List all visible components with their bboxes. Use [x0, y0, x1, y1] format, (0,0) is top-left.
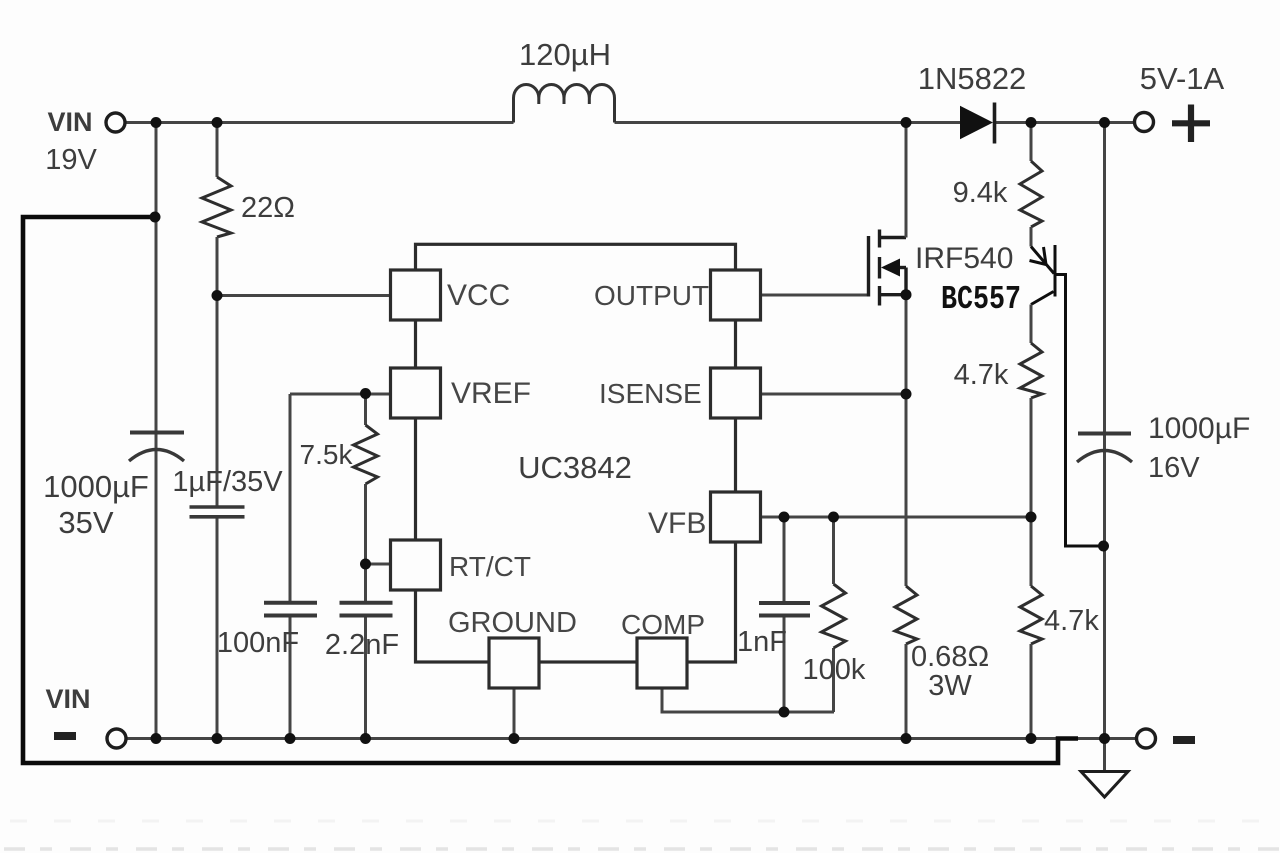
ground symbol: [1103, 739, 1106, 772]
junction diode cathode / 9.4k: [1026, 117, 1037, 128]
wire left vertical input rail x=156: [155, 123, 158, 739]
inductor L1 120uH: [514, 84, 615, 122]
svg-text:4.7k: 4.7k: [1044, 605, 1099, 637]
resistor R5 9.4k: [1020, 161, 1042, 227]
wire VFB node down to lower 4.7k: [1030, 517, 1033, 586]
capacitor C1 1000uF 35V: [129, 433, 184, 462]
svg-text:ISENSE: ISENSE: [599, 378, 702, 409]
wire x=217 from top rail to 22ohm: [216, 123, 219, 178]
svg-text:7.5k: 7.5k: [300, 439, 354, 470]
wire bottom rail: [126, 737, 1105, 740]
bottom scan dashes: [10, 820, 1280, 823]
svg-text:19V: 19V: [45, 144, 97, 176]
svg-text:1000µF: 1000µF: [43, 469, 149, 504]
capacitor C4 2.2nF: [340, 603, 393, 616]
svg-text:1000µF: 1000µF: [1148, 412, 1250, 445]
plus symbol output: [1172, 105, 1210, 143]
junction 22ohm / top wire: [212, 117, 223, 128]
junction MOSFET source: [901, 289, 912, 300]
wire VFB pin right to divider node: [761, 516, 1031, 519]
capacitor C3 100nF: [264, 603, 317, 616]
wire top rail from VIN+ terminal to inductor: [125, 121, 514, 124]
junction VFB / 100k: [828, 512, 839, 523]
junction RT/CT node: [360, 559, 371, 570]
wire COMP pin down and right to 1nF/100k: [662, 688, 834, 712]
pin VCC box: [391, 270, 441, 320]
svg-text:16V: 16V: [1148, 452, 1200, 484]
pin COMP box: [637, 638, 687, 688]
junction MOSFET drain / diode anode: [901, 117, 912, 128]
svg-text:BC557: BC557: [941, 281, 1021, 318]
svg-text:OUTPUT: OUTPUT: [594, 280, 709, 311]
svg-text:9.4k: 9.4k: [953, 177, 1008, 209]
capacitor C6 1000uF 16V: [1077, 434, 1132, 463]
wire MOSFET drain to top rail: [905, 123, 908, 238]
svg-text:RT/CT: RT/CT: [449, 551, 531, 582]
transistor Q2 BC557: [1030, 245, 1056, 305]
wire BC557 base lead to output minus rail: [1057, 275, 1104, 547]
svg-text:VCC: VCC: [447, 279, 510, 312]
pin VFB box: [711, 492, 761, 542]
junction VCC node: [212, 290, 223, 301]
wire ISENSE pin to MOSFET source node: [761, 393, 906, 396]
junction bottom rail / input cap: [151, 733, 162, 744]
pin ISENSE box: [711, 368, 761, 418]
svg-text:VIN: VIN: [45, 684, 90, 714]
wire output + rail x=1104.5: [1103, 123, 1106, 739]
pin VREF box: [391, 368, 441, 418]
junction ISENSE node: [901, 389, 912, 400]
svg-text:1nF: 1nF: [737, 626, 787, 658]
capacitor C5 1nF: [783, 517, 786, 602]
junction thick border / input rail: [150, 212, 161, 223]
terminal VIN +: [106, 113, 125, 132]
svg-text:GROUND: GROUND: [448, 607, 577, 639]
junction VFB / 4.7k divider: [1026, 512, 1037, 523]
junction bottom rail / 100nF: [285, 733, 296, 744]
junction bottom rail / 1uF: [212, 733, 223, 744]
svg-text:100nF: 100nF: [217, 627, 299, 659]
svg-text:1µF/35V: 1µF/35V: [172, 466, 283, 498]
wire 9.4k top connection: [1030, 123, 1033, 162]
wire top rail from inductor to diode anode: [615, 121, 961, 124]
junction COMP / 1nF: [779, 707, 790, 718]
svg-text:4.7k: 4.7k: [954, 359, 1009, 391]
svg-text:35V: 35V: [58, 505, 113, 540]
wire collector down to 4.7k: [1030, 305, 1033, 344]
terminal output -: [1137, 729, 1156, 748]
resistor R3 100k: [822, 584, 846, 648]
resistor R1 22ohm: [202, 177, 231, 237]
junction bottom rail / GROUND pin: [509, 733, 520, 744]
junction VREF / 7.5k: [360, 388, 371, 399]
wire VREF pin left to 100nF branch: [290, 393, 391, 396]
pin OUTPUT box: [711, 270, 761, 320]
junction bottom rail / 0.68ohm: [901, 733, 912, 744]
resistor R4 0.68ohm 3W: [895, 586, 917, 644]
svg-text:5V-1A: 5V-1A: [1140, 61, 1225, 96]
minus symbol bottom left: [54, 732, 76, 740]
capacitor C2 1uF/35V: [190, 507, 245, 517]
junction BC557 base lead / output rail: [1098, 541, 1109, 552]
svg-text:100k: 100k: [803, 654, 866, 686]
wire MOSFET source down through ISENSE node to 0.68 ohm: [905, 295, 908, 586]
wire RT/CT pin to 7.5k/2.2nF node: [366, 563, 391, 566]
minus symbol bottom right: [1173, 736, 1195, 744]
pin RT/CT box: [391, 540, 441, 590]
junction input rail / top wire: [151, 117, 162, 128]
svg-text:VIN: VIN: [47, 107, 92, 137]
wire 100k bottom leg: [832, 648, 835, 712]
svg-text:1N5822: 1N5822: [918, 61, 1027, 96]
terminal output +: [1135, 113, 1154, 132]
wire 22ohm to VCC node and down to 1uF cap: [216, 237, 219, 506]
junction bottom rail / 2.2nF: [360, 733, 371, 744]
diode D1 1N5822: [960, 106, 993, 139]
pin GROUND box: [489, 638, 539, 688]
wire OUTPUT pin to MOSFET gate: [761, 294, 867, 297]
resistor R6 4.7k upper: [1020, 343, 1042, 398]
svg-text:0.68Ω: 0.68Ω: [911, 641, 989, 673]
svg-text:UC3842: UC3842: [518, 450, 632, 485]
svg-text:22Ω: 22Ω: [241, 192, 295, 224]
svg-text:IRF540: IRF540: [915, 242, 1013, 275]
svg-text:3W: 3W: [928, 670, 972, 702]
IC U1 UC3842 body: [416, 244, 736, 662]
wire x=290 down to 100nF: [289, 394, 292, 601]
svg-text:120µH: 120µH: [519, 37, 611, 72]
terminal VIN -: [107, 729, 126, 748]
wire top rail from diode cathode to output + terminal: [996, 121, 1135, 124]
svg-text:COMP: COMP: [621, 609, 705, 640]
junction bottom rail / 4.7k: [1026, 733, 1037, 744]
transistor Q1 IRF540 MOSFET: [869, 230, 907, 306]
svg-text:VFB: VFB: [648, 507, 706, 540]
resistor R7 4.7k lower: [1020, 586, 1042, 644]
junction bottom rail / output -: [1099, 733, 1110, 744]
thick annotation border: [23, 217, 1078, 763]
wire VCC pin to 22ohm node: [217, 294, 391, 297]
resistor R2 7.5k: [364, 394, 367, 425]
junction VFB / 1nF: [779, 512, 790, 523]
junction output + rail / top wire: [1099, 117, 1110, 128]
wire GROUND pin to bottom rail: [513, 688, 516, 739]
svg-text:VREF: VREF: [451, 377, 531, 410]
svg-text:2.2nF: 2.2nF: [325, 629, 399, 661]
